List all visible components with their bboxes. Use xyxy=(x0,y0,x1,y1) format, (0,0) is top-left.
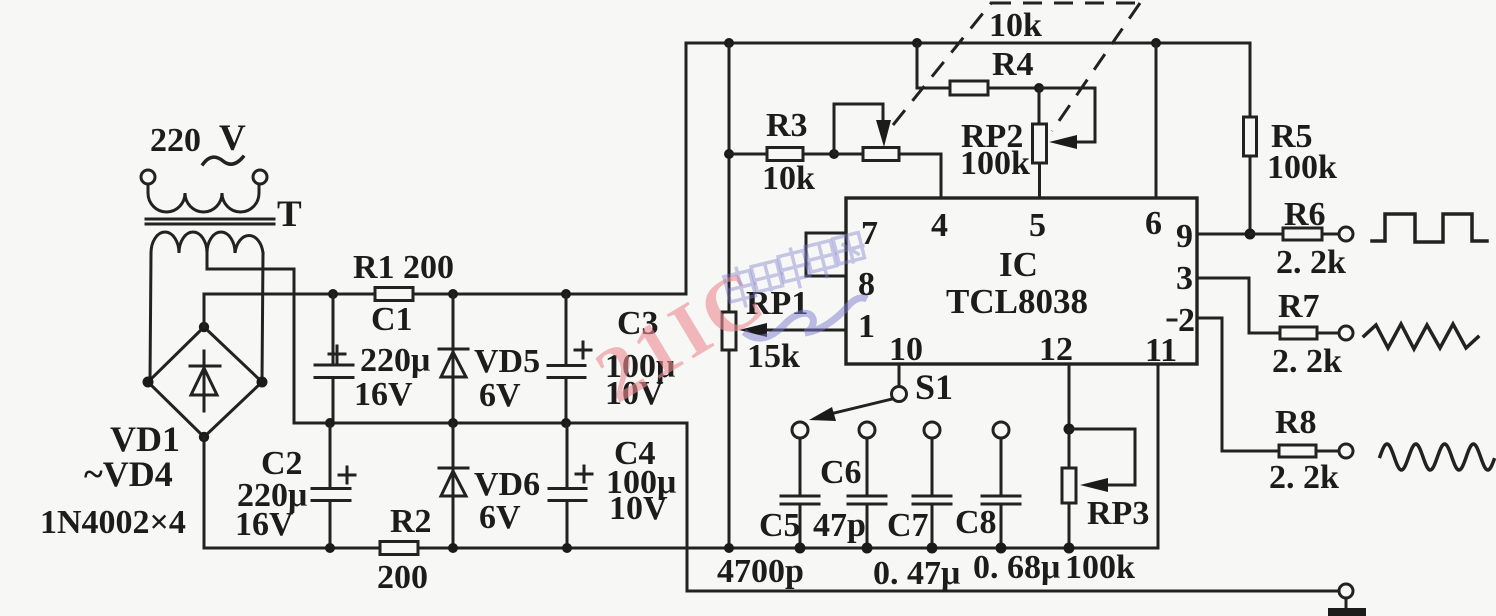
node bottom rail c7 xyxy=(927,543,938,554)
wire secondary center tap to mid rail xyxy=(207,253,294,423)
svg-text:R2: R2 xyxy=(390,503,432,540)
capacitor C8 xyxy=(982,438,1020,548)
svg-text:R7: R7 xyxy=(1278,288,1320,325)
triangle wave symbol xyxy=(1364,324,1478,349)
svg-text:15k: 15k xyxy=(747,338,800,375)
node E xyxy=(448,418,458,428)
node H xyxy=(448,543,458,553)
watermark blue glyph 3 xyxy=(777,244,815,292)
svg-text:10V: 10V xyxy=(609,490,668,527)
wire pin 4 riser xyxy=(940,154,943,198)
svg-text:10k: 10k xyxy=(989,7,1042,44)
svg-text:VD1: VD1 xyxy=(110,419,180,459)
svg-text:16V: 16V xyxy=(354,376,413,413)
svg-text:47p: 47p xyxy=(813,507,866,544)
svg-text:C1: C1 xyxy=(371,301,413,338)
switch S1 blade xyxy=(822,399,892,416)
resistor R3 xyxy=(729,148,834,161)
svg-text:C7: C7 xyxy=(887,507,929,544)
wire RP1 column xyxy=(728,43,731,548)
svg-text:T: T xyxy=(277,194,302,235)
wire pin 2 xyxy=(1197,318,1279,451)
ground stem xyxy=(1345,598,1348,609)
terminal square output xyxy=(1339,227,1353,241)
node G xyxy=(325,543,335,553)
wire pin 9 xyxy=(1197,233,1250,236)
wire pin 12 to RP3 xyxy=(1068,364,1071,468)
wire secondary left lead to bridge xyxy=(150,253,151,382)
resistor R4 xyxy=(917,43,1039,95)
svg-text:R4: R4 xyxy=(992,46,1034,83)
svg-text:C6: C6 xyxy=(820,454,862,491)
svg-text:4700p: 4700p xyxy=(717,553,804,590)
capacitor C5 xyxy=(781,438,819,548)
node B xyxy=(448,289,458,299)
ground terminal circle xyxy=(1339,584,1353,598)
node bottom rail c8 xyxy=(996,543,1007,554)
potentiometer RP3 xyxy=(1062,468,1076,548)
capacitor C1 xyxy=(315,294,353,423)
capacitor C6 xyxy=(848,438,886,548)
svg-text:R3: R3 xyxy=(766,107,808,144)
pin 2 tick xyxy=(1168,319,1176,322)
transformer T secondary winding xyxy=(151,232,263,253)
resistor R6 xyxy=(1250,228,1339,240)
resistor R7 xyxy=(1280,327,1339,339)
wire secondary right lead to bridge xyxy=(262,253,263,382)
svg-text:12: 12 xyxy=(1039,331,1073,368)
wire top rail xyxy=(686,42,1250,45)
svg-text:100k: 100k xyxy=(1267,149,1337,186)
transformer T primary winding xyxy=(148,184,259,212)
node RP1 column bottom xyxy=(724,543,734,553)
switch contact 1 xyxy=(792,422,808,438)
svg-text:VD6: VD6 xyxy=(474,466,540,503)
switch contact 2 xyxy=(859,422,875,438)
ground bar xyxy=(1328,608,1366,616)
svg-text:3: 3 xyxy=(1176,260,1193,297)
svg-text:11: 11 xyxy=(1145,332,1177,369)
svg-text:RP3: RP3 xyxy=(1087,495,1149,532)
switch S1 pivot xyxy=(892,387,907,402)
node I xyxy=(562,543,572,553)
resistor R5 xyxy=(1244,43,1257,234)
svg-text:C8: C8 xyxy=(955,504,997,541)
wire rheostat wiper loop xyxy=(834,104,883,154)
watermark blue glyph 5 xyxy=(833,232,868,267)
svg-text:6: 6 xyxy=(1145,205,1162,242)
svg-text:IC: IC xyxy=(999,245,1038,284)
node F xyxy=(561,418,571,428)
node bottom rail rp3 xyxy=(1064,543,1075,554)
capacitor C4 xyxy=(549,423,592,548)
potentiometer RP2 xyxy=(1033,88,1047,198)
AC tilde symbol xyxy=(203,157,243,164)
svg-text:~VD4: ~VD4 xyxy=(84,454,173,494)
potentiometer RP1 xyxy=(722,312,736,350)
wire bottom rail xyxy=(204,547,1158,550)
wire bridge top to plus rail xyxy=(203,294,206,327)
dashed gang link right xyxy=(1052,3,1140,131)
terminal sine output xyxy=(1339,444,1353,458)
dashed gang link top xyxy=(992,2,1140,5)
node R5 R6 junction xyxy=(1245,229,1256,240)
resistor R1 xyxy=(375,288,413,301)
node bridge bottom xyxy=(199,432,209,442)
sine wave symbol xyxy=(1380,444,1494,470)
svg-text:C5: C5 xyxy=(759,507,801,544)
capacitor C7 xyxy=(913,438,951,548)
node RP3 top xyxy=(1064,424,1075,435)
node top rail x1156 xyxy=(1151,38,1161,48)
wire pin 11 drop xyxy=(1157,364,1160,548)
wire ground run xyxy=(687,590,1339,593)
watermark blue glyph 1 xyxy=(722,263,760,311)
node D xyxy=(325,418,335,428)
svg-text:6V: 6V xyxy=(479,499,521,536)
svg-text:2. 2k: 2. 2k xyxy=(1272,343,1342,380)
node bridge left xyxy=(143,377,154,388)
node bridge right xyxy=(257,377,268,388)
svg-text:R8: R8 xyxy=(1275,404,1317,441)
svg-text:200: 200 xyxy=(377,559,428,596)
rheostat gang section body xyxy=(834,148,941,161)
svg-text:2. 2k: 2. 2k xyxy=(1269,459,1339,496)
svg-text:1N4002×4: 1N4002×4 xyxy=(40,504,186,541)
wire pin 1 to RP1 wiper xyxy=(766,329,846,332)
capacitor C2 xyxy=(312,423,355,548)
node top rail x917 xyxy=(912,38,922,48)
bridge inner diode symbol xyxy=(190,351,220,411)
arrow switch blade xyxy=(809,407,836,421)
svg-text:9: 9 xyxy=(1176,218,1193,255)
resistor R2 xyxy=(380,542,418,555)
arrow RP3 wiper xyxy=(1080,478,1108,492)
node R3 junction xyxy=(724,149,734,159)
wire plus rail xyxy=(204,293,686,296)
capacitor C3 xyxy=(548,294,591,423)
wire pin 10 to switch xyxy=(898,364,901,386)
svg-text:0. 68μ: 0. 68μ xyxy=(973,549,1060,586)
transformer T core xyxy=(146,219,274,224)
op-amp U1 IC TCL8038 box xyxy=(846,198,1197,364)
svg-text:16V: 16V xyxy=(235,506,294,543)
svg-text:2. 2k: 2. 2k xyxy=(1276,244,1346,281)
arrow rheostat wiper xyxy=(876,120,891,147)
wire RP3 wiper loop xyxy=(1069,429,1135,485)
wire ground drop xyxy=(686,423,689,591)
wire mid rail xyxy=(294,422,687,425)
bridge rectifier VD1-VD4 diamond xyxy=(148,327,262,437)
square wave symbol xyxy=(1372,214,1487,242)
node A xyxy=(328,289,338,299)
svg-text:VD5: VD5 xyxy=(474,343,540,380)
svg-text:100k: 100k xyxy=(960,145,1030,182)
node bottom rail c5 xyxy=(795,543,806,554)
transformer T primary terminals xyxy=(141,170,267,184)
resistor R8 xyxy=(1279,445,1339,457)
watermark blue glyph 4 xyxy=(805,240,842,282)
zener VD5 xyxy=(439,294,468,423)
svg-text:V: V xyxy=(219,118,246,159)
svg-text:S1: S1 xyxy=(915,367,953,407)
wire bridge bottom to minus rail xyxy=(203,437,206,548)
node bottom rail c6 xyxy=(862,543,873,554)
wire plus rail riser to top rail xyxy=(685,43,688,294)
watermark blue script xyxy=(744,298,867,338)
svg-text:2: 2 xyxy=(1178,302,1195,339)
pins 7-8 strap box xyxy=(806,233,846,276)
arrow RP1 wiper xyxy=(739,323,767,337)
svg-text:10: 10 xyxy=(889,331,923,368)
svg-text:220: 220 xyxy=(150,122,201,159)
node C xyxy=(561,289,571,299)
svg-text:R6: R6 xyxy=(1284,196,1326,233)
svg-text:220μ: 220μ xyxy=(360,342,430,379)
svg-text:TCL8038: TCL8038 xyxy=(946,282,1088,321)
wire RP2 wiper loop xyxy=(1039,88,1095,142)
watermark blue glyph 2 xyxy=(751,260,786,295)
svg-text:R1 200: R1 200 xyxy=(353,249,454,286)
svg-text:10k: 10k xyxy=(762,160,815,197)
svg-text:6V: 6V xyxy=(479,377,521,414)
zener VD6 xyxy=(439,423,468,548)
svg-text:4: 4 xyxy=(931,207,948,244)
node top rail x729 xyxy=(724,38,734,48)
wire pin 3 xyxy=(1197,278,1280,333)
terminal triangle output xyxy=(1339,326,1353,340)
node bridge top xyxy=(199,322,209,332)
switch contact 4 xyxy=(993,422,1009,438)
node R3 right xyxy=(829,149,839,159)
svg-text:100k: 100k xyxy=(1065,549,1135,586)
svg-text:5: 5 xyxy=(1029,207,1046,244)
dashed gang link left xyxy=(893,2,992,125)
wire pin 6 riser xyxy=(1155,43,1158,198)
arrow RP2 wiper xyxy=(1049,135,1077,149)
switch contact 3 xyxy=(924,422,940,438)
svg-text:1: 1 xyxy=(858,308,875,345)
node R4 right xyxy=(1034,83,1044,93)
svg-text:0. 47μ: 0. 47μ xyxy=(873,555,960,592)
